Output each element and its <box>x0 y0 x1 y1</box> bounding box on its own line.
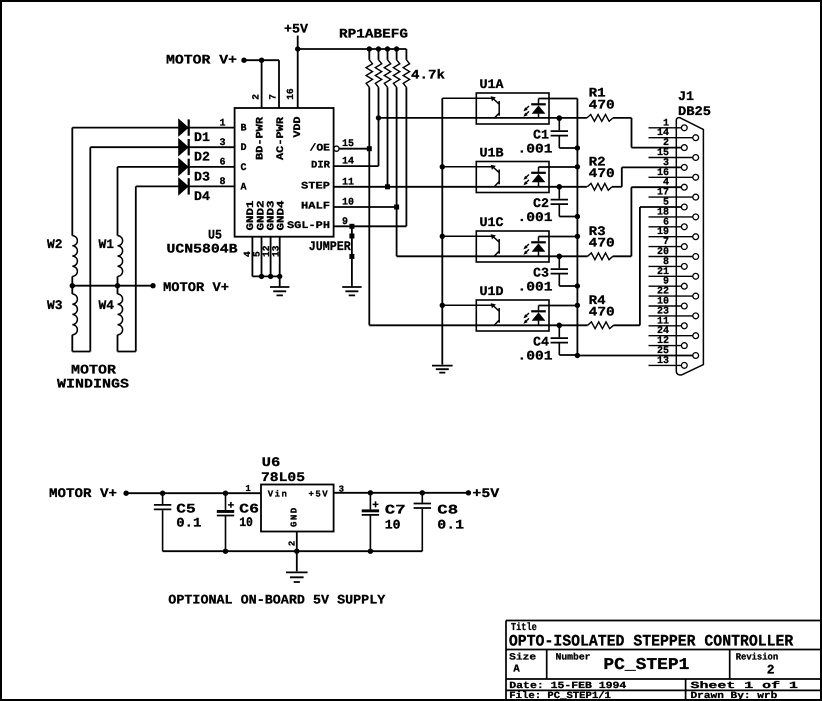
wire D1 anode to W2 top <box>71 128 73 236</box>
wire U1A collector/anode line <box>379 117 587 119</box>
junction C1 / R1 <box>557 115 562 120</box>
wire U5 pin 16 stub <box>297 49 299 108</box>
junction C7 <box>368 490 373 495</box>
diode D4 <box>179 178 188 194</box>
wire C2 to common <box>559 216 577 218</box>
svg-text:C5: C5 <box>176 501 196 516</box>
resistor R2 470 <box>587 183 612 190</box>
svg-text:D3: D3 <box>194 169 210 184</box>
resistor RP1-G 4.7k <box>403 60 409 88</box>
capacitor C8 0.1 <box>421 493 423 551</box>
svg-text:10: 10 <box>385 518 401 533</box>
wire J1 pin 19 stub <box>649 236 693 238</box>
wire D3 anode to W1 top <box>117 167 119 236</box>
svg-text:D2: D2 <box>194 150 210 165</box>
wire +5V stem <box>297 36 299 50</box>
capacitor C2 plates <box>551 200 568 205</box>
svg-text:10: 10 <box>239 515 253 530</box>
J1 pin 15 pad <box>693 155 699 161</box>
wire HALF net to U1C and R3 <box>397 255 588 257</box>
junction RP1-B / U1A collector line <box>376 115 381 120</box>
wire J1 pin 17 stub <box>649 196 693 198</box>
wire RP1-B to U1A and DIR <box>378 87 380 166</box>
junction C6 <box>223 491 228 496</box>
svg-text:+5V: +5V <box>284 22 308 37</box>
svg-text:C1: C1 <box>533 127 549 142</box>
J1 pin 3 pad <box>681 165 687 171</box>
svg-text:VDD: VDD <box>293 117 304 138</box>
wire J1 pin 15 stub <box>649 157 693 159</box>
svg-text:U1A: U1A <box>480 77 504 92</box>
inductor W3 (motor winding) <box>72 294 77 335</box>
wire MOTOR V+ to U5 pins 2,7 <box>244 59 279 61</box>
J1 pin 16 pad <box>693 174 699 180</box>
svg-text:U1D: U1D <box>480 284 504 299</box>
wire J1 pin 14 stub <box>649 137 693 139</box>
J1 pin 1 pad <box>681 125 687 131</box>
J1 pin 13 pad <box>681 363 687 369</box>
wire common to J1 pin 25 <box>577 355 693 357</box>
svg-text:MOTOR V+: MOTOR V+ <box>166 53 237 68</box>
junction C3 tap <box>557 254 562 259</box>
wire U5 GND1 stub <box>251 237 253 277</box>
junction C7 bottom <box>368 549 373 554</box>
junction common line / C3 bottom <box>575 283 580 288</box>
junction +5V rail / RP1-A <box>367 46 372 51</box>
J1 pin 9 pad <box>681 283 687 289</box>
junction U6 GND <box>294 549 299 554</box>
wire J1 pin 1 stub <box>649 127 682 129</box>
resistor RP1-B 4.7k <box>375 60 381 88</box>
svg-text:A: A <box>241 182 248 193</box>
opto-isolator U1A <box>476 93 549 124</box>
wire STEP net through U1B <box>334 186 587 188</box>
svg-text:W1: W1 <box>99 237 115 252</box>
svg-text:MOTOR: MOTOR <box>71 363 116 378</box>
J1 pin 12 pad <box>681 343 687 349</box>
node MOTOR V+ endpoint (center tap) <box>150 283 155 288</box>
jumper post 1 <box>349 234 354 239</box>
junction C2 tap <box>557 184 562 189</box>
junction common line / U1C cathode <box>575 234 580 239</box>
svg-text:B: B <box>241 124 248 135</box>
LED U1D <box>538 306 540 326</box>
title block frame <box>506 621 821 701</box>
diode D1 <box>179 119 188 135</box>
svg-text:W4: W4 <box>99 298 115 313</box>
wire U5 pin D2 net <box>90 146 234 148</box>
svg-text:U1C: U1C <box>480 215 504 230</box>
wire C3 to common <box>559 285 577 287</box>
capacitor C5 plates <box>154 505 171 510</box>
wire J1 pin 10 stub <box>649 305 682 307</box>
wire RP1-A to /OE and U1D <box>368 87 370 325</box>
svg-text:+: + <box>372 500 379 512</box>
light emission arrows U1B <box>525 175 529 184</box>
wire R3 out <box>613 255 632 257</box>
svg-text:D: D <box>241 143 248 154</box>
svg-text:470: 470 <box>589 236 615 251</box>
node +5V endpoint <box>466 490 471 495</box>
svg-text:Revision: Revision <box>736 651 779 662</box>
capacitor C1 plates <box>551 131 568 136</box>
light emission arrows U1D <box>525 313 529 322</box>
phototransistor U1A <box>442 98 499 118</box>
wire U5 GND4 stub <box>279 237 281 277</box>
svg-text:0.1: 0.1 <box>176 516 201 531</box>
svg-text:STEP: STEP <box>301 181 330 192</box>
wire J1 pin 24 stub <box>649 335 693 337</box>
svg-text:C: C <box>241 163 248 174</box>
J1 pin 17 pad <box>693 194 699 200</box>
svg-text:GND4: GND4 <box>277 201 288 231</box>
svg-text:C2: C2 <box>533 196 549 211</box>
svg-text:2: 2 <box>767 663 775 678</box>
wire J1 pin 21 stub <box>649 275 693 277</box>
wire U5 pin D3 net <box>118 166 235 168</box>
wire jumper to ground <box>351 226 353 285</box>
svg-text:2: 2 <box>251 94 262 100</box>
svg-text:U1B: U1B <box>480 146 504 161</box>
J1 pin 21 pad <box>693 273 699 279</box>
svg-text:J1: J1 <box>678 89 694 104</box>
light emission arrows U1C <box>525 244 529 253</box>
J1 pin 14 pad <box>693 135 699 141</box>
svg-text:78L05: 78L05 <box>261 470 305 485</box>
J1 pin 18 pad <box>693 214 699 220</box>
junction +5V rail / RP1-E <box>385 46 390 51</box>
ground (supply) <box>286 551 308 582</box>
wire GND bus under U5 <box>252 275 279 277</box>
capacitor C8 plates <box>414 504 431 509</box>
junction common line / U1B cathode <box>575 164 580 169</box>
junction common line / U1D cathode <box>575 303 580 308</box>
wire U5 pin 2 stub <box>261 60 263 108</box>
svg-text:+5V: +5V <box>309 490 330 500</box>
wire /OE to RP1-A <box>339 148 369 150</box>
junction C8 <box>420 490 425 495</box>
wire HALF to RP1-F <box>334 206 397 208</box>
wire R1 out <box>613 117 632 119</box>
inductor W1 (motor winding) <box>118 236 123 277</box>
junction +5V rail / RP1-B <box>376 46 381 51</box>
junction U1D emitter <box>440 303 445 308</box>
svg-text:13: 13 <box>657 356 669 367</box>
junction +5V rail / VDD <box>295 46 300 51</box>
junction STEP / RP1-E <box>385 184 390 189</box>
resistor RP1-A 4.7k <box>366 60 372 88</box>
wire opto emitter common to ground <box>441 98 443 364</box>
wire U1D LED cathode <box>539 305 578 307</box>
junction GND3 <box>268 274 273 279</box>
svg-text:Number: Number <box>556 651 591 662</box>
svg-text:U5: U5 <box>208 228 222 243</box>
svg-text:0.1: 0.1 <box>437 518 464 533</box>
junction SGL-PH / jumper <box>349 224 354 229</box>
wire /OE net to U1D and R4 <box>369 324 587 326</box>
regulator U6 78L05 body <box>261 485 334 532</box>
svg-text:C4: C4 <box>533 334 549 349</box>
wire U6 +5V output <box>334 492 469 494</box>
J1 pin 2 pad <box>681 145 687 151</box>
J1 pin 7 pad <box>681 244 687 250</box>
junction MOTOR V+ / pin 2 <box>259 58 264 63</box>
wire W1 bottom to center tap <box>117 276 119 294</box>
wire +5V rail to RP1 <box>298 48 407 50</box>
wire W3 to D2 link <box>72 351 90 353</box>
wire W3 bottom <box>71 335 73 352</box>
svg-text:.001: .001 <box>518 142 553 157</box>
svg-text:+: + <box>228 500 235 512</box>
wire J1 pin 12 stub <box>649 345 682 347</box>
J1 pin 11 pad <box>681 323 687 329</box>
wire J1 pin 20 stub <box>649 256 693 258</box>
wire MOTOR V+ to U6 Vin <box>126 492 261 494</box>
svg-text:470: 470 <box>589 305 615 320</box>
svg-text:16: 16 <box>285 88 296 100</box>
wire W4 to D4 link <box>118 351 136 353</box>
svg-text:BD-PWR: BD-PWR <box>255 117 266 160</box>
svg-text:470: 470 <box>589 166 615 181</box>
junction common line / C4 bottom / pin 25 <box>575 353 580 358</box>
svg-text:D4: D4 <box>194 189 210 204</box>
svg-text:SGL-PH: SGL-PH <box>287 221 330 232</box>
junction common line / C1 bottom <box>575 145 580 150</box>
svg-text:470: 470 <box>589 97 615 112</box>
junction C6 bottom <box>223 549 228 554</box>
wire J1 pin 11 stub <box>649 325 682 327</box>
resistor R4 470 <box>588 322 614 329</box>
wire D2 anode down <box>89 147 91 351</box>
svg-text:C3: C3 <box>533 265 549 280</box>
junction GND2 <box>259 274 264 279</box>
J1 pin 10 pad <box>681 303 687 309</box>
svg-text:HALF: HALF <box>301 202 330 213</box>
wire U1A LED cathode <box>539 98 578 100</box>
diode D3 <box>179 159 188 175</box>
svg-text:OPTIONAL ON-BOARD 5V SUPPLY: OPTIONAL ON-BOARD 5V SUPPLY <box>168 593 385 608</box>
svg-text:.001: .001 <box>518 280 553 295</box>
J1 pin 5 pad <box>681 204 687 210</box>
J1 pin 23 pad <box>693 313 699 319</box>
phototransistor U1B <box>442 167 499 187</box>
svg-text:AC-PWR: AC-PWR <box>276 117 287 160</box>
svg-text:Vin: Vin <box>268 490 289 500</box>
junction C4 tap <box>557 323 562 328</box>
svg-text:Drawn By: wrb: Drawn By: wrb <box>691 690 778 701</box>
LED U1B <box>538 167 540 187</box>
J1 pin 6 pad <box>681 224 687 230</box>
capacitor C6 plates <box>217 510 234 513</box>
wire W2 bottom to center tap <box>71 276 73 294</box>
svg-text:RP1ABEFG: RP1ABEFG <box>339 27 408 42</box>
junction HALF / RP1-F <box>394 205 399 210</box>
svg-text:UCN5804B: UCN5804B <box>167 242 238 257</box>
junction C3 / R3 <box>557 254 562 259</box>
IC U5 UCN5804B body <box>235 108 334 237</box>
connector J1 DB25 body <box>676 118 703 375</box>
wire J1 pin 18 stub <box>649 216 693 218</box>
wire RP1-E to STEP <box>387 87 389 187</box>
wire J1 pin 6 stub <box>649 226 682 228</box>
wire W4 bottom <box>117 335 119 352</box>
svg-text:PC_STEP1: PC_STEP1 <box>603 655 689 674</box>
svg-text:+5V: +5V <box>472 486 499 501</box>
wire R4 to pin 5 <box>639 207 641 325</box>
svg-text:MOTOR V+: MOTOR V+ <box>163 280 229 295</box>
svg-text:.001: .001 <box>518 210 553 225</box>
junction W2/W3 center tap <box>70 283 75 288</box>
wire U5 GND3 stub <box>270 237 272 277</box>
wire RP1-A top stub <box>368 49 370 60</box>
wire R4 out <box>614 324 640 326</box>
svg-text:C7: C7 <box>385 503 406 518</box>
capacitor C3 plates <box>551 269 568 274</box>
J1 pin 4 pad <box>681 184 687 190</box>
wire to J1 pin 5 <box>640 206 682 208</box>
wire J1 pin 9 stub <box>649 285 682 287</box>
U5 /OE inverting bubble <box>334 146 339 151</box>
wire SGL-PH to RP1-G <box>334 225 407 227</box>
phototransistor U1C <box>442 236 499 256</box>
svg-text:U6: U6 <box>262 455 281 470</box>
resistor R1 470 <box>587 115 613 122</box>
capacitor C4 .001 <box>558 325 560 355</box>
resistor RP1-F 4.7k <box>393 60 399 88</box>
capacitor C5 0.1 <box>162 493 164 551</box>
J1 pin 19 pad <box>693 234 699 240</box>
junction U1B emitter <box>440 164 445 169</box>
svg-text:/OE: /OE <box>310 142 331 154</box>
wire to J1 pin 4 <box>631 186 681 188</box>
capacitor C7 10 (electrolytic) <box>369 493 371 551</box>
junction W1/W4 center tap <box>115 283 120 288</box>
resistor R3 470 <box>588 253 613 260</box>
wire U6 GND pin stub <box>296 532 298 552</box>
capacitor C3 .001 <box>558 256 560 286</box>
opto-isolator U1D <box>476 300 549 331</box>
wire J1 pin 13 stub <box>649 364 682 366</box>
node MOTOR V+ endpoint (supply) <box>123 491 128 496</box>
junction GND4 <box>277 274 282 279</box>
ground (jumper) <box>342 286 361 296</box>
wire RP1-B top stub <box>378 49 380 60</box>
capacitor C1 .001 <box>558 118 560 148</box>
wire U5 pin D4 net <box>136 185 235 187</box>
LED U1C <box>538 237 540 257</box>
node MOTOR V+ endpoint <box>241 58 246 63</box>
inductor W2 (motor winding) <box>72 236 77 277</box>
svg-text:1: 1 <box>245 484 251 494</box>
svg-text:.001: .001 <box>518 349 553 364</box>
phototransistor U1D <box>442 305 499 325</box>
wire RP1-G top stub <box>405 49 407 60</box>
wire R2 to pin 3 <box>621 167 623 186</box>
capacitor C6 10 (electrolytic) <box>225 493 227 551</box>
wire J1 pin 23 stub <box>649 315 693 317</box>
svg-text:GND: GND <box>290 506 300 527</box>
junction C2 / R2 <box>557 184 562 189</box>
junction /OE / RP1-A <box>367 146 372 151</box>
jumper post 2 <box>349 254 354 259</box>
ground (U5) <box>270 276 289 295</box>
wire common LED-cathode vertical to pin 25 <box>576 99 578 356</box>
wire J1 pin 7 stub <box>649 246 682 248</box>
svg-text:DIR: DIR <box>311 161 330 172</box>
J1 pin 20 pad <box>693 254 699 260</box>
wire RP1-G to SGL-PH <box>405 87 407 226</box>
junction C5 <box>160 491 165 496</box>
wire J1 pin 22 stub <box>649 295 693 297</box>
wire C4 to common <box>559 354 577 356</box>
junction common line / C2 bottom <box>575 214 580 219</box>
J1 pin 8 pad <box>681 264 687 270</box>
junction +5V rail / RP1-F <box>394 46 399 51</box>
opto-isolator U1B <box>476 162 549 193</box>
svg-text:D1: D1 <box>194 130 210 145</box>
svg-text:DB25: DB25 <box>678 104 711 119</box>
resistor RP1-E 4.7k <box>384 60 390 88</box>
wire motor center tap MOTOR V+ <box>72 285 153 287</box>
capacitor C4 plates <box>551 338 568 343</box>
wire R3 to pin 4 <box>630 187 632 256</box>
J1 pin 22 pad <box>693 293 699 299</box>
junction C4 / R4 <box>557 323 562 328</box>
wire U5 pin 7 stub <box>278 60 280 108</box>
junction U1C emitter <box>440 234 445 239</box>
svg-text:Size: Size <box>509 651 536 662</box>
opto-isolator U1C <box>476 231 549 262</box>
svg-text:4.7k: 4.7k <box>411 68 445 83</box>
wire U1B LED cathode <box>539 166 578 168</box>
inductor W4 (motor winding) <box>118 294 123 335</box>
svg-text:File: PC_STEP1/1: File: PC_STEP1/1 <box>509 690 611 701</box>
wire supply ground bus <box>163 550 423 552</box>
junction C1 tap <box>557 116 562 121</box>
wire U1C LED cathode <box>539 236 578 238</box>
wire J1 pin 16 stub <box>649 176 693 178</box>
wire to J1 pin 2 <box>632 147 682 149</box>
LED U1A <box>538 99 540 119</box>
svg-text:OPTO-ISOLATED STEPPER CONTROLL: OPTO-ISOLATED STEPPER CONTROLLER <box>509 633 794 651</box>
wire D4 anode down <box>135 186 137 351</box>
svg-text:W3: W3 <box>47 298 63 313</box>
wire DIR to RP1-B <box>334 165 379 167</box>
svg-text:C8: C8 <box>437 503 458 518</box>
wire RP1-E top stub <box>387 49 389 60</box>
svg-text:WINDINGS: WINDINGS <box>57 377 129 392</box>
capacitor C2 .001 <box>558 187 560 217</box>
wire RP1-F to HALF and U1C <box>396 87 398 256</box>
svg-text:W2: W2 <box>47 237 63 252</box>
svg-text:7: 7 <box>267 94 278 100</box>
wire R1 to pin 2 <box>631 118 633 148</box>
J1 pin 25 pad <box>693 353 699 359</box>
svg-text:A: A <box>513 664 520 676</box>
wire U5 GND2 stub <box>261 237 263 277</box>
light emission arrows U1A <box>525 106 529 115</box>
svg-text:MOTOR V+: MOTOR V+ <box>49 486 117 501</box>
wire RP1-F top stub <box>396 49 398 60</box>
diode D2 <box>179 139 188 155</box>
wire U5 pin D1 net <box>72 127 234 129</box>
capacitor C7 plates <box>362 509 379 512</box>
wire C1 to common <box>559 147 577 149</box>
wire to J1 pin 3 <box>622 166 682 168</box>
J1 pin 24 pad <box>693 333 699 339</box>
ground (opto emitters) <box>432 365 453 373</box>
svg-text:JUMPER: JUMPER <box>309 239 351 254</box>
